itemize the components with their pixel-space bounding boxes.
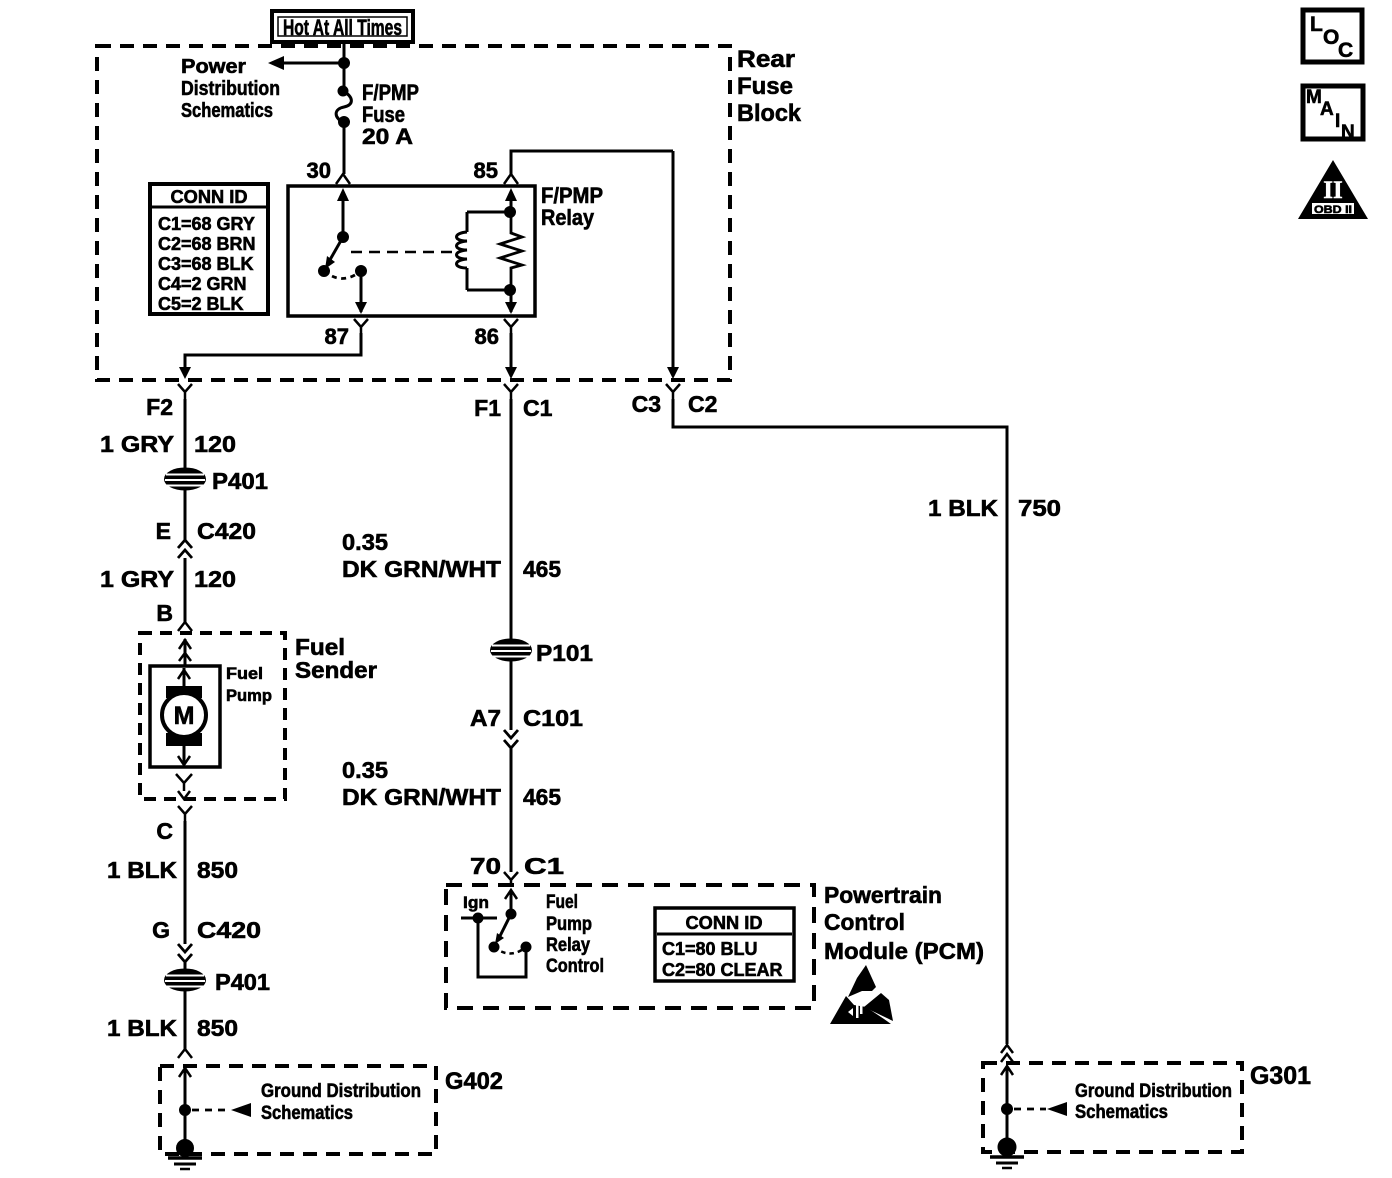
svg-text:Schematics: Schematics <box>181 100 273 122</box>
svg-text:C420: C420 <box>197 917 261 943</box>
svg-text:30: 30 <box>307 158 331 183</box>
icon: LOC box <box>1303 10 1362 62</box>
svg-text:0.35: 0.35 <box>342 757 388 783</box>
fuse F/PMP Fuse 20 A <box>336 87 351 127</box>
svg-text:Control: Control <box>824 909 905 935</box>
pin 30 chevron <box>336 174 350 184</box>
svg-text:85: 85 <box>474 158 498 183</box>
pcm switch <box>490 910 530 954</box>
ground box G402 <box>160 1066 436 1154</box>
svg-text:Ground Distribution: Ground Distribution <box>1075 1081 1232 1102</box>
svg-text:Fuse: Fuse <box>737 73 793 100</box>
svg-text:850: 850 <box>197 857 238 883</box>
wire: C420 to P401 <box>184 962 187 971</box>
svg-text:465: 465 <box>523 556 561 582</box>
connector Y at pin 70 <box>504 872 518 885</box>
svg-text:Fuel: Fuel <box>546 892 578 913</box>
svg-text:M: M <box>174 702 195 730</box>
svg-text:465: 465 <box>523 784 561 810</box>
label: Ground Distribution Schematics (G402) <box>261 1081 421 1124</box>
svg-text:Relay: Relay <box>546 935 590 956</box>
label: F/PMP Relay <box>541 183 603 230</box>
svg-text:1 BLK: 1 BLK <box>107 1015 177 1041</box>
dashed reference arrow G301 <box>1014 1102 1067 1116</box>
svg-text:A7: A7 <box>470 705 501 731</box>
svg-text:Module (PCM): Module (PCM) <box>824 938 984 964</box>
svg-text:Fuel: Fuel <box>226 664 263 683</box>
icon: OBD II triangle <box>1298 160 1368 219</box>
svg-text:Distribution: Distribution <box>181 78 280 100</box>
svg-text:Power: Power <box>181 56 246 78</box>
svg-text:Pump: Pump <box>226 686 272 705</box>
ground box G301 <box>983 1063 1242 1152</box>
svg-text:C: C <box>1338 39 1353 62</box>
wire: pin 86 down to F1 <box>505 333 517 379</box>
double chevron into G301 <box>1001 1045 1013 1062</box>
svg-text:G301: G301 <box>1250 1062 1311 1090</box>
svg-text:87: 87 <box>325 324 349 349</box>
junction dot <box>340 59 349 68</box>
wire: C420 to fuel sender <box>184 558 187 623</box>
svg-text:I: I <box>1335 111 1340 132</box>
svg-text:Schematics: Schematics <box>1075 1102 1168 1123</box>
svg-text:OBD II: OBD II <box>1314 204 1352 216</box>
svg-text:F2: F2 <box>146 394 173 420</box>
connector C420 double chevron down <box>178 944 192 962</box>
svg-text:E: E <box>156 518 171 544</box>
svg-text:C3: C3 <box>632 391 661 417</box>
wire: P101 to C101 <box>510 661 513 730</box>
pin 85 chevron <box>504 174 518 184</box>
wire: F1/C1 to P101 <box>510 399 513 640</box>
chevron into G402 <box>178 1049 192 1058</box>
svg-text:CONN ID: CONN ID <box>171 187 248 207</box>
svg-text:Powertrain: Powertrain <box>824 882 942 908</box>
svg-text:Control: Control <box>546 956 604 977</box>
svg-text:1 BLK: 1 BLK <box>107 857 177 883</box>
connector C420 double chevron <box>178 540 192 558</box>
svg-text:Sender: Sender <box>295 657 377 683</box>
svg-text:70: 70 <box>470 853 501 879</box>
connector Y at F1/C1 <box>504 384 518 399</box>
svg-text:1 GRY: 1 GRY <box>100 431 174 457</box>
connector Y at F2 <box>178 384 192 399</box>
connector Y at C <box>178 806 192 821</box>
wire: pin 87 down-left to F2 <box>179 333 361 379</box>
svg-text:II: II <box>1323 177 1342 204</box>
chevron at B <box>178 622 192 631</box>
pcm ign wire <box>461 914 526 977</box>
svg-text:C1: C1 <box>524 853 564 879</box>
svg-text:F1: F1 <box>474 395 501 421</box>
svg-text:1 GRY: 1 GRY <box>100 566 174 592</box>
svg-text:DK GRN/WHT: DK GRN/WHT <box>342 556 501 582</box>
svg-text:B: B <box>156 600 173 626</box>
svg-text:C2=80 CLEAR: C2=80 CLEAR <box>662 960 783 980</box>
svg-text:C2: C2 <box>688 391 717 417</box>
svg-text:C101: C101 <box>523 705 583 731</box>
wire: C to C420 <box>184 821 187 944</box>
svg-text:O: O <box>1323 26 1339 49</box>
svg-text:Block: Block <box>737 100 802 127</box>
pin 86 chevron <box>504 319 518 333</box>
label: Fuel Pump <box>226 664 272 705</box>
label: Powertrain Control Module (PCM) <box>824 882 984 964</box>
svg-text:C1=68 GRY: C1=68 GRY <box>158 214 255 234</box>
pcm driver: arrow up <box>505 890 517 914</box>
svg-text:P401: P401 <box>215 969 270 995</box>
grommet P101 <box>491 640 531 661</box>
relay box U1 <box>288 186 535 316</box>
ground symbol G402 <box>168 1141 202 1170</box>
svg-text:Ground Distribution: Ground Distribution <box>261 1081 421 1102</box>
fuel pump inner box <box>150 666 220 767</box>
svg-text:G: G <box>152 917 170 943</box>
label: Hot At All Times box <box>272 11 413 42</box>
rear fuse block dashed box <box>97 46 730 380</box>
wire to box edge <box>178 791 190 799</box>
label: Power Distribution Schematics <box>181 56 280 122</box>
svg-text:20 A: 20 A <box>362 124 413 149</box>
PCM dashed box <box>446 885 814 1008</box>
wire: arrow to Power Distribution Schematics <box>268 56 344 70</box>
svg-text:G402: G402 <box>445 1068 503 1095</box>
svg-text:P101: P101 <box>536 640 593 666</box>
svg-text:C2=68 BRN: C2=68 BRN <box>158 234 256 254</box>
connector Y below pump <box>176 774 192 791</box>
esd symbol <box>830 965 893 1024</box>
svg-text:120: 120 <box>194 431 236 457</box>
fuel sender dashed box <box>140 633 285 799</box>
wire inside G402 <box>179 1068 191 1148</box>
svg-text:P401: P401 <box>212 468 268 494</box>
svg-text:C1: C1 <box>523 395 553 421</box>
svg-text:C3=68 BLK: C3=68 BLK <box>158 254 254 274</box>
label: Fuel Sender <box>295 634 377 683</box>
svg-text:Hot At All Times: Hot At All Times <box>283 15 402 40</box>
svg-text:C4=2 GRN: C4=2 GRN <box>158 274 247 294</box>
pin 87 chevron <box>354 319 368 333</box>
wire: from Hot At All Times down <box>343 42 346 91</box>
svg-text:C: C <box>156 818 173 844</box>
label: Ground Distribution Schematics (G301) <box>1075 1081 1232 1123</box>
svg-text:N: N <box>1341 122 1355 143</box>
dashed reference arrow G402 <box>192 1103 251 1117</box>
node dot G301 <box>1003 1105 1012 1114</box>
grommet P401 <box>165 469 205 490</box>
svg-text:Ign: Ign <box>463 893 489 912</box>
conn id table rear fuse block <box>150 184 268 314</box>
svg-text:CONN ID: CONN ID <box>686 913 763 933</box>
wire: F2 to P401 <box>184 399 187 470</box>
svg-text:750: 750 <box>1018 495 1061 521</box>
dashed actuation line <box>351 251 452 254</box>
conn id table PCM <box>655 908 794 981</box>
svg-text:C420: C420 <box>197 518 256 544</box>
relay resistor <box>500 212 522 314</box>
relay coil <box>457 188 518 290</box>
svg-text:Rear: Rear <box>737 46 795 73</box>
svg-text:DK GRN/WHT: DK GRN/WHT <box>342 784 501 810</box>
svg-text:Schematics: Schematics <box>261 1103 353 1124</box>
svg-text:Pump: Pump <box>546 914 592 935</box>
icon: MAIN box <box>1303 86 1363 143</box>
svg-text:C5=2 BLK: C5=2 BLK <box>158 294 244 314</box>
wire inside G301 <box>1001 1066 1013 1147</box>
wire: fuse to relay pin 30 <box>343 123 346 174</box>
svg-text:C1=80 BLU: C1=80 BLU <box>662 939 758 959</box>
wire: C2 to G301 <box>673 399 1007 1044</box>
svg-text:A: A <box>1320 99 1334 120</box>
svg-text:1 BLK: 1 BLK <box>928 495 998 521</box>
wire: pin 85 up and right to C2 drop <box>511 151 673 174</box>
svg-text:0.35: 0.35 <box>342 529 388 555</box>
ground symbol G301 <box>990 1139 1024 1168</box>
grommet P401 lower <box>165 970 205 991</box>
wire arrow into pump <box>179 639 191 666</box>
wire: C101 to PCM <box>510 748 513 872</box>
node dot G402 <box>181 1106 190 1115</box>
wire: P401 to G402 <box>184 991 187 1050</box>
svg-text:850: 850 <box>197 1015 238 1041</box>
motor M1 <box>162 668 206 765</box>
label: Rear Fuse Block <box>737 46 802 127</box>
relay switch (pin 30 to 87) <box>320 188 368 314</box>
label: F/PMP Fuse 20 A <box>362 80 419 149</box>
wire: C2 drop <box>667 151 679 379</box>
connector Y at C3/C2 <box>666 384 680 399</box>
label: Fuel Pump Relay Control <box>546 892 604 977</box>
svg-text:120: 120 <box>194 566 236 592</box>
connector C101 double chevron down <box>504 730 518 748</box>
wire: P401 to C420 <box>184 490 187 541</box>
svg-text:Relay: Relay <box>541 205 595 230</box>
svg-text:L: L <box>1310 13 1323 36</box>
svg-text:86: 86 <box>475 324 499 349</box>
